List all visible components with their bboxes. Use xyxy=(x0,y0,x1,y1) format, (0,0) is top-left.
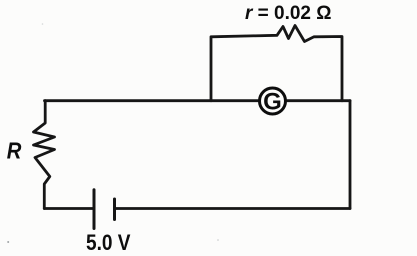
svg-text:r = 0.02 Ω: r = 0.02 Ω xyxy=(245,3,332,24)
svg-text:G: G xyxy=(263,89,282,116)
svg-text:5.0 V: 5.0 V xyxy=(86,230,131,255)
svg-text:R: R xyxy=(7,137,22,164)
